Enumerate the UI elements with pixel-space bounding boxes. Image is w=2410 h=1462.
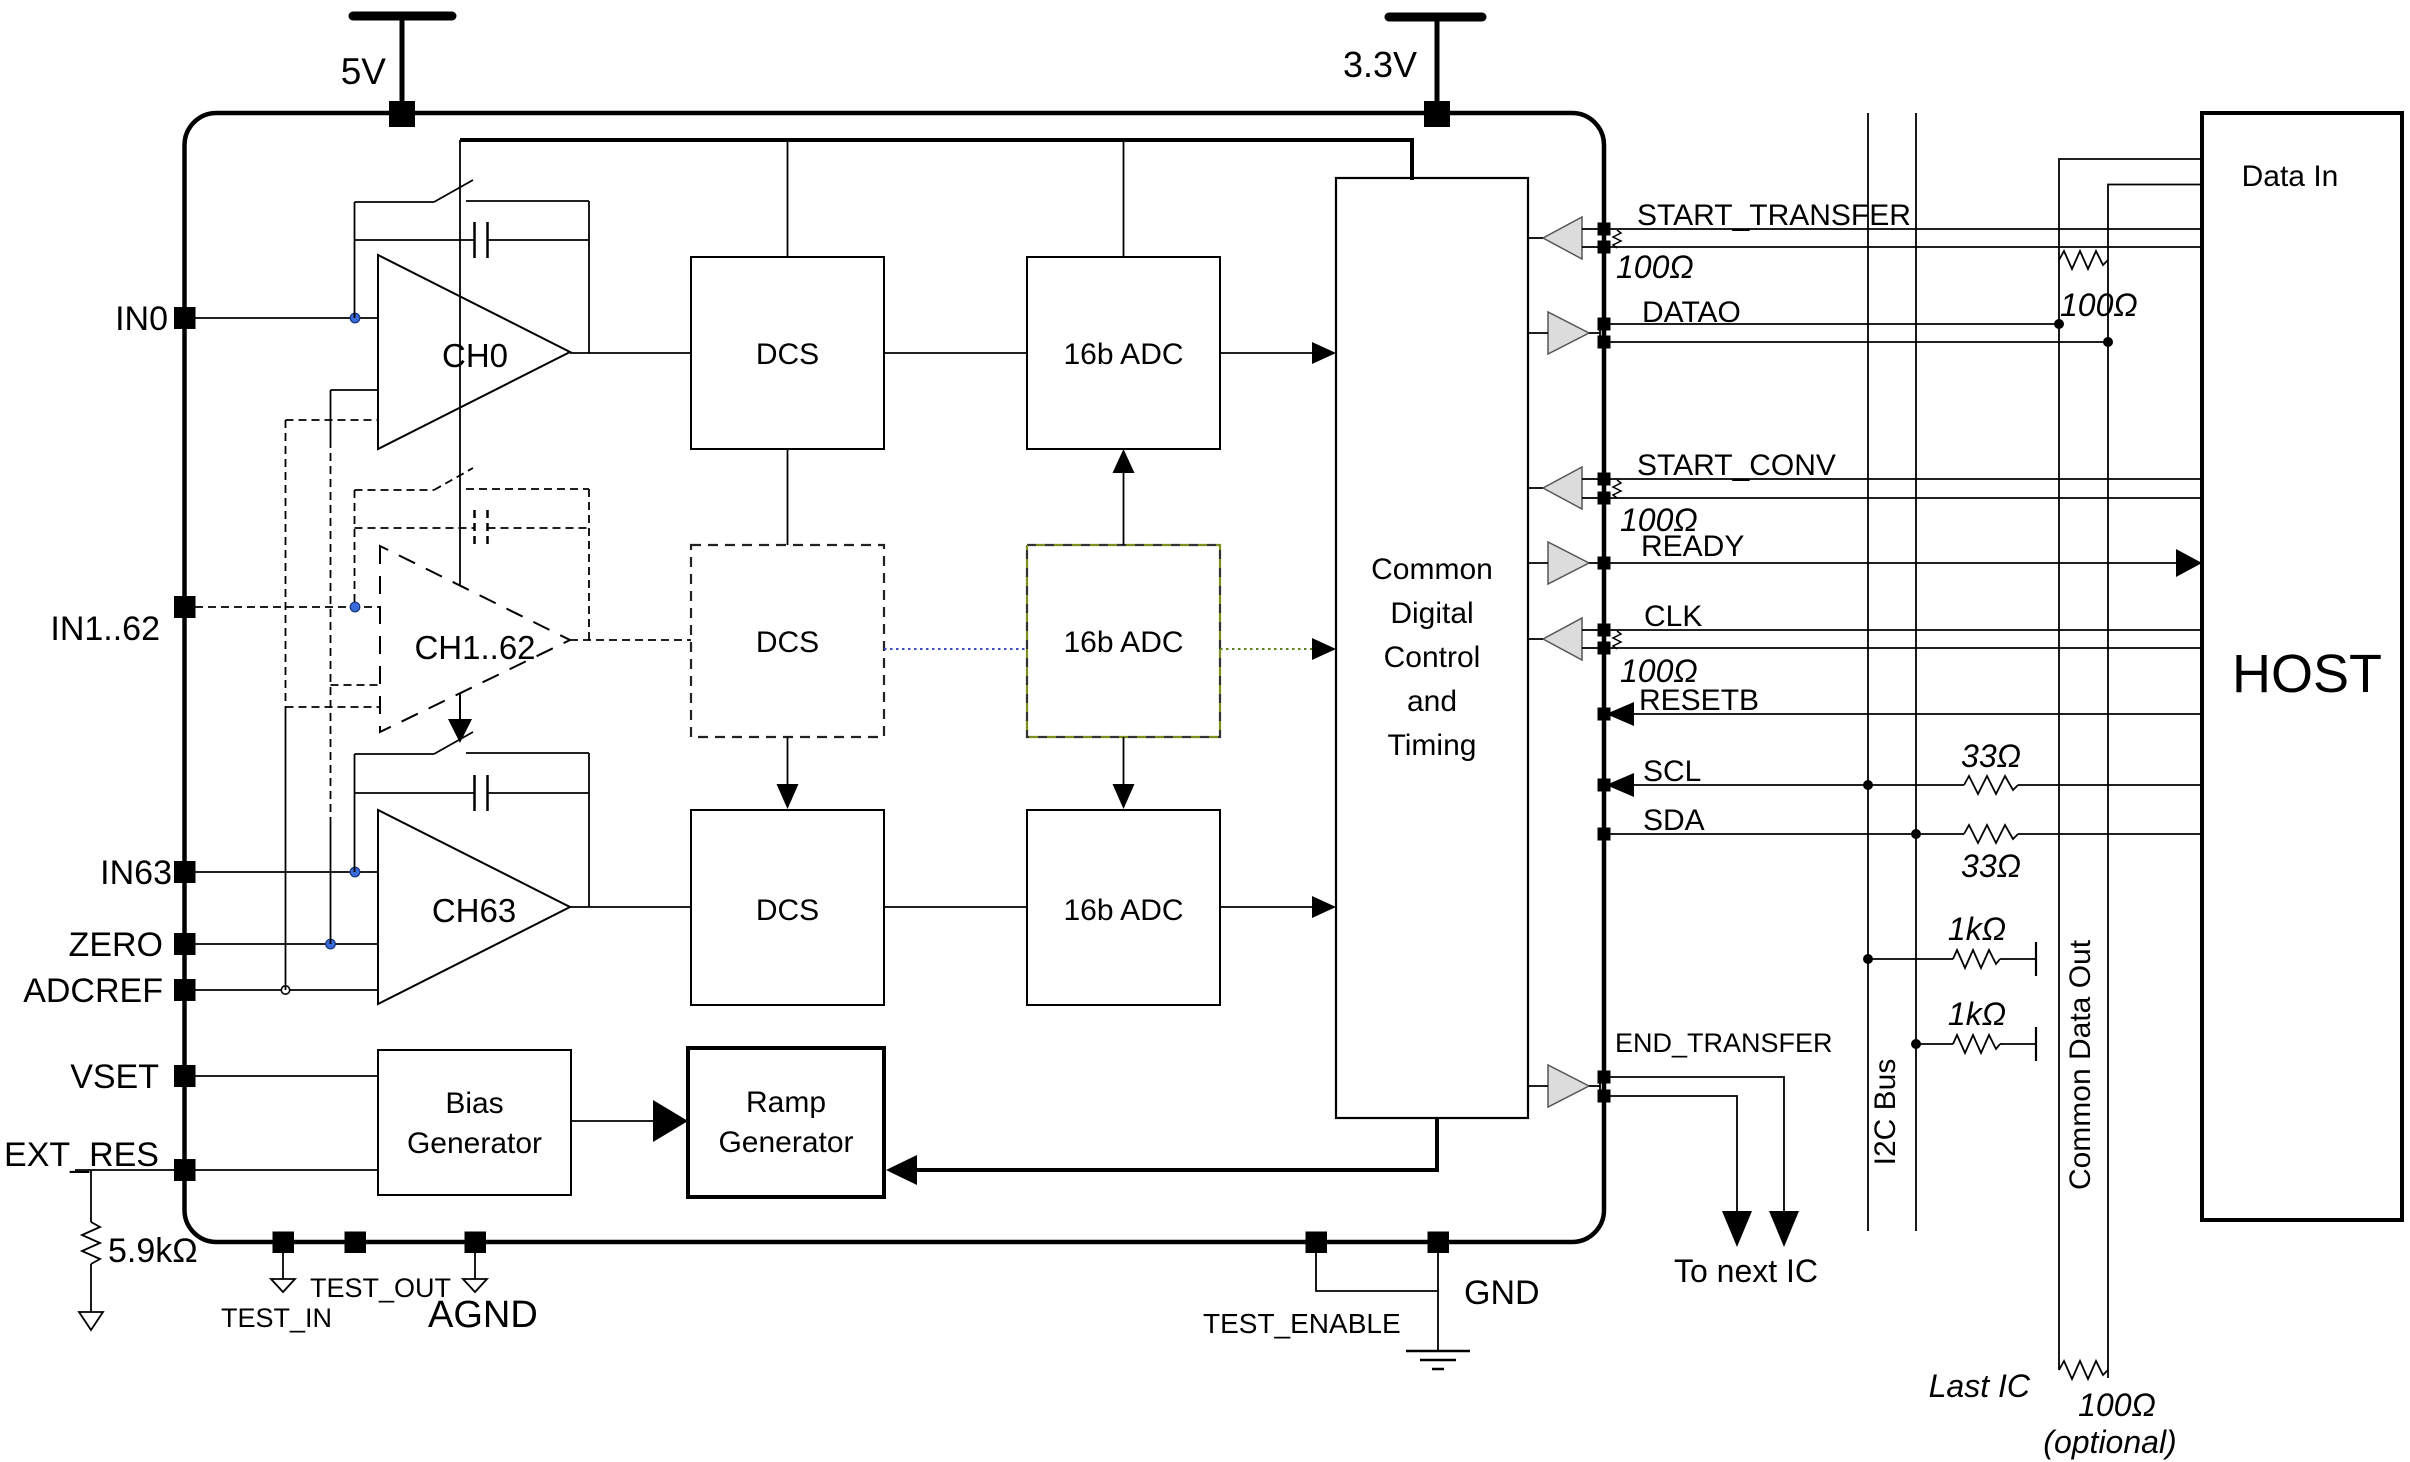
pin VSET (174, 1065, 196, 1087)
switch CH1..62 reset (dashed) (355, 468, 590, 490)
ground symbol (1406, 1351, 1470, 1369)
wire DATAO upper to chain (1610, 323, 2059, 325)
wire CLK upper (1610, 629, 2202, 631)
wire DATAO lower to chain (1610, 341, 2108, 343)
svg-text:16b ADC: 16b ADC (1063, 894, 1183, 927)
svg-text:TEST_ENABLE: TEST_ENABLE (1203, 1308, 1401, 1339)
wire ADC row2 to ADC row3 with down arrow (1123, 737, 1125, 790)
chain line to host (lower) (2108, 185, 2202, 1379)
svg-text:AGND: AGND (428, 1294, 538, 1336)
wire START_TRANSFER upper (1610, 228, 2202, 230)
svg-text:33Ω: 33Ω (1961, 848, 2021, 884)
wire CH1..62 output (dashed) (570, 639, 691, 641)
svg-text:I2C Bus: I2C Bus (1869, 1059, 1902, 1166)
wire START_CONV upper (1610, 478, 2202, 480)
block Ramp Generator (688, 1048, 884, 1197)
svg-text:Control: Control (1384, 641, 1481, 674)
svg-text:Generator: Generator (407, 1127, 542, 1160)
HOST block (2202, 113, 2402, 1220)
svg-text:CLK: CLK (1644, 600, 1702, 633)
svg-text:Bias: Bias (445, 1087, 503, 1120)
capacitor CH63 feedback (355, 775, 590, 811)
resistor 100R series START_CONV (1613, 480, 1621, 498)
svg-text:DCS: DCS (756, 894, 819, 927)
block 16b ADC row2 (dashed green) (1027, 545, 1220, 737)
buffer START_CONV (input) (1543, 467, 1582, 509)
svg-text:ZERO: ZERO (69, 926, 163, 964)
pin TEST_OUT (345, 1232, 367, 1254)
op-amp CH1..62 (dashed) (380, 546, 570, 732)
wire DCS row2 to DCS row3 with down arrow (787, 737, 789, 790)
IC boundary (185, 113, 1605, 1242)
capacitor CH1..62 feedback (dashed) (355, 510, 590, 546)
capacitor CH0 feedback (355, 222, 590, 258)
svg-text:HOST: HOST (2232, 644, 2382, 704)
resistor 5.9kOhm (82, 1222, 100, 1264)
wire IN63 to CH63 (195, 871, 378, 873)
CH0 feedback left riser (354, 202, 356, 318)
pin IN0 (174, 307, 196, 329)
wire Common block to Ramp Generator (thick) with arrow (915, 1118, 1437, 1170)
wire START_TRANSFER lower (1610, 246, 2202, 248)
block Bias Generator (378, 1050, 571, 1195)
pin ADCREF (174, 979, 196, 1001)
ZERO distribution bus (331, 390, 381, 944)
svg-text:(optional): (optional) (2043, 1424, 2176, 1460)
5V pin pad (389, 101, 415, 127)
block Common Digital Control and Timing (1336, 178, 1528, 1118)
svg-text:DCS: DCS (756, 626, 819, 659)
svg-text:16b ADC: 16b ADC (1063, 338, 1183, 371)
svg-text:DATAO: DATAO (1642, 296, 1741, 329)
ADCREF distribution bus (286, 420, 381, 990)
svg-text:33Ω: 33Ω (1961, 738, 2021, 774)
wire DCS row1 top to control bus (787, 140, 789, 257)
buffer END_TRANSFER (output) (1548, 1065, 1589, 1107)
svg-text:START_CONV: START_CONV (1637, 449, 1836, 482)
block 16b ADC row3 (1027, 810, 1220, 1005)
buffer READY (output) (1548, 542, 1589, 584)
svg-text:DCS: DCS (756, 338, 819, 371)
pin ZERO (174, 933, 196, 955)
wire ADC row3 to Common block with arrow (1220, 906, 1316, 908)
svg-text:Data In: Data In (2242, 160, 2339, 193)
buffer START_TRANSFER (input) (1543, 217, 1582, 259)
switch CH63 reset (355, 732, 590, 754)
svg-text:TEST_IN: TEST_IN (221, 1303, 332, 1333)
block DCS row2 (dashed) (691, 545, 884, 737)
pin TEST_IN (273, 1232, 295, 1254)
svg-text:IN0: IN0 (115, 300, 168, 338)
block 16b ADC row1 (1027, 257, 1220, 449)
wire DCS row1 to ADC row1 (884, 352, 1027, 354)
op-amp CH0 (378, 255, 570, 449)
wire ADC row2 to Common block (green dotted) with arrow (1220, 648, 1314, 650)
svg-text:16b ADC: 16b ADC (1063, 626, 1183, 659)
wire DCS row2 to ADC row2 (blue dotted) (884, 648, 1027, 650)
control bus from top into Common block (460, 140, 1412, 180)
CH63 feedback left riser (354, 754, 356, 872)
svg-text:Digital: Digital (1390, 597, 1473, 630)
svg-text:IN63: IN63 (100, 854, 172, 892)
svg-text:SCL: SCL (1643, 755, 1701, 788)
svg-text:ADCREF: ADCREF (23, 972, 163, 1010)
svg-text:100Ω: 100Ω (1616, 249, 1694, 285)
node IN63 junction (350, 867, 360, 877)
wire ADC row1 top to control bus (1123, 140, 1125, 257)
buffer CLK (input) (1543, 618, 1582, 660)
wire READY to HOST with arrow (1610, 562, 2180, 564)
3.3V pin pad (1424, 101, 1450, 127)
wire ADC row1 to Common block with arrow (1220, 352, 1316, 354)
block DCS row1 (691, 257, 884, 449)
pin IN63 (174, 861, 196, 883)
node IN1..62 junction (350, 602, 360, 612)
svg-text:Generator: Generator (718, 1126, 853, 1159)
block DCS row3 (691, 810, 884, 1005)
3.3V supply (1343, 17, 1482, 104)
I2C bus line SCL (1867, 113, 1869, 1231)
wire END_TRANSFER lower to next IC (1610, 1096, 1737, 1214)
wire VSET to Bias Generator (195, 1075, 378, 1077)
svg-text:END_TRANSFER: END_TRANSFER (1615, 1028, 1833, 1058)
svg-text:5V: 5V (341, 51, 387, 92)
svg-text:EXT_RES: EXT_RES (4, 1136, 159, 1174)
svg-text:Ramp: Ramp (746, 1086, 826, 1119)
svg-text:SDA: SDA (1643, 804, 1705, 837)
svg-text:1kΩ: 1kΩ (1948, 911, 2006, 947)
wire CH63 feedback right riser (588, 753, 590, 907)
op-amp CH63 (378, 810, 570, 1004)
pin TEST_ENABLE (1306, 1232, 1328, 1254)
wire CH1..62 feedback right riser (dashed) (588, 489, 590, 640)
wire END_TRANSFER upper to next IC (1610, 1077, 1784, 1214)
svg-text:100Ω: 100Ω (2078, 1387, 2156, 1423)
svg-text:READY: READY (1641, 530, 1744, 563)
wire ADC row2 to ADC row1 with up arrow (1123, 465, 1125, 545)
switch control line (459, 140, 461, 585)
svg-text:CH1..62: CH1..62 (414, 629, 535, 666)
svg-text:CH0: CH0 (442, 337, 508, 374)
CH1..62 feedback left riser (dashed) (354, 490, 356, 607)
svg-text:GND: GND (1464, 1274, 1540, 1312)
pin SCL with arrow (1598, 779, 1611, 792)
5V supply (341, 16, 452, 104)
wire CH0 output (570, 352, 691, 354)
svg-text:and: and (1407, 685, 1457, 718)
svg-text:RESETB: RESETB (1639, 684, 1759, 717)
chain line to host (upper) (2059, 159, 2202, 1370)
resistor 100R series START_TRANSFER (1613, 230, 1621, 248)
wire Bias to Ramp with arrow (571, 1120, 656, 1122)
svg-text:START_TRANSFER: START_TRANSFER (1637, 199, 1911, 232)
svg-text:1kΩ: 1kΩ (1948, 996, 2006, 1032)
svg-text:IN1..62: IN1..62 (50, 610, 160, 648)
svg-text:VSET: VSET (70, 1058, 159, 1096)
wire IN0 to CH0 (195, 317, 378, 319)
resistor 1k pullup SCL (1863, 954, 1873, 964)
svg-text:3.3V: 3.3V (1343, 44, 1417, 85)
svg-text:Common Data Out: Common Data Out (2064, 939, 2097, 1190)
resistor 100R optional (bottom) (2059, 1361, 2108, 1379)
switch CH0 reset (355, 180, 590, 202)
wire CLK lower (1610, 647, 2202, 649)
wire IN1..62 to CH1..62 (dashed) (195, 606, 380, 608)
arrow repeat indicator to CH63 switch (448, 694, 472, 743)
wire CH63 output (570, 906, 691, 908)
node ADCREF open junction (281, 986, 289, 994)
pin RESETB with arrow (1598, 708, 1611, 721)
resistor 100R series CLK (1613, 631, 1621, 649)
wire CH0 feedback right riser (588, 201, 590, 353)
pin SDA (1598, 828, 1611, 841)
resistor 33R SDA (1964, 825, 2018, 843)
node ZERO junction (326, 939, 336, 949)
svg-text:Timing: Timing (1388, 729, 1477, 762)
svg-text:Common: Common (1371, 553, 1493, 586)
svg-text:5.9kΩ: 5.9kΩ (108, 1232, 198, 1270)
I2C bus line SDA (1915, 113, 1917, 1231)
buffer DATAO (output) (1548, 312, 1589, 354)
svg-text:Last IC: Last IC (1929, 1368, 2031, 1404)
resistor 33R SCL (1964, 776, 2018, 794)
resistor 1k pullup SDA (1911, 1039, 1921, 1049)
wire ZERO to CH63 inverting input (195, 943, 378, 945)
wire EXT_RES to Bias Generator and external resistor (75, 1169, 378, 1171)
svg-text:To next IC: To next IC (1674, 1253, 1818, 1289)
svg-text:100Ω: 100Ω (2060, 287, 2138, 323)
wire START_CONV lower (1610, 497, 2202, 499)
pin AGND (465, 1232, 487, 1254)
wire DCS row3 to ADC row3 (884, 906, 1027, 908)
pin EXT_RES (174, 1159, 196, 1181)
ground (open arrow) below 5.9k (79, 1312, 103, 1330)
wire DCS row1 to DCS row2 (787, 449, 789, 545)
wire ADCREF to CH63 lower input (195, 989, 378, 991)
resistor 100R chain top (2059, 251, 2108, 269)
svg-text:CH63: CH63 (432, 892, 516, 929)
node IN0 junction (350, 313, 360, 323)
pin IN1..62 (174, 596, 196, 618)
pin GND (1428, 1232, 1450, 1254)
